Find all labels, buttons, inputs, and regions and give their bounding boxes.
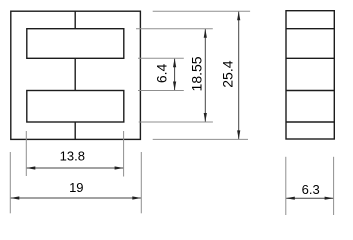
center leg line top segment <box>74 11 76 29</box>
dimension 13.8 line and arrows <box>26 166 123 169</box>
extension line side right (6.3) <box>333 157 335 215</box>
extension line lower window bottom <box>139 121 213 123</box>
extension line outer left (19) <box>9 152 11 213</box>
svg-text:19: 19 <box>69 180 83 195</box>
dimension 6.3 line and arrows <box>286 197 334 200</box>
side view division line 2 <box>286 57 334 59</box>
side view division line 3 <box>286 90 334 92</box>
dimension 6.4 line and arrows <box>173 58 176 90</box>
front view top window <box>27 29 124 59</box>
extension line window left (13.8) <box>25 131 27 176</box>
extension line window bottom <box>138 57 184 59</box>
extension line outer bottom <box>153 138 248 140</box>
extension line lower window top <box>138 90 184 92</box>
svg-text:13.8: 13.8 <box>60 149 85 164</box>
extension line side left (6.3) <box>285 157 287 215</box>
side view division line 1 <box>286 28 334 30</box>
side view outline <box>286 11 334 139</box>
dimension 18.55 line and arrows <box>204 29 207 122</box>
center leg line middle segment <box>74 58 76 90</box>
extension line window right (13.8) <box>123 131 125 177</box>
dimension 19 line and arrows <box>10 196 141 199</box>
svg-text:6.4: 6.4 <box>154 63 170 83</box>
extension line outer right (19) <box>140 152 142 213</box>
center leg line bottom segment <box>74 122 76 139</box>
side view division line 4 <box>286 121 334 123</box>
dimension 25.4 line and arrows <box>237 11 240 139</box>
svg-text:18.55: 18.55 <box>188 56 204 91</box>
svg-text:6.3: 6.3 <box>302 182 320 197</box>
front view outer outline <box>11 11 141 139</box>
svg-text:25.4: 25.4 <box>220 60 236 87</box>
extension line outer top <box>153 10 250 12</box>
front view bottom window <box>27 91 124 123</box>
extension line window top <box>136 28 213 30</box>
